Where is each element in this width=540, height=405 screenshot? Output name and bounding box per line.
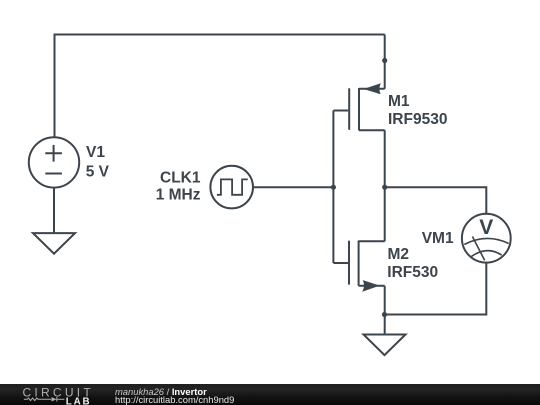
wire output to voltmeter xyxy=(385,187,487,214)
svg-text:VM1: VM1 xyxy=(422,230,454,247)
svg-text:CLK1: CLK1 xyxy=(160,169,201,186)
footer title text xyxy=(115,386,207,397)
svg-text:V1: V1 xyxy=(86,144,105,161)
transistor M1 xyxy=(333,83,384,130)
ground (bottom) xyxy=(364,335,406,356)
wire voltmeter bottom xyxy=(385,263,487,315)
voltmeter VM1 xyxy=(462,214,511,263)
node gate junction xyxy=(331,185,336,190)
label V1 xyxy=(86,144,110,181)
svg-text:M2: M2 xyxy=(388,246,410,263)
svg-text:IRF530: IRF530 xyxy=(387,264,438,281)
voltage source V1 xyxy=(29,137,79,187)
wire M2 source to ground xyxy=(384,286,386,335)
footer url text xyxy=(115,394,234,405)
node top-right junction xyxy=(382,58,387,63)
CircuitLab logo xyxy=(0,384,110,405)
svg-text:V: V xyxy=(479,216,493,239)
wire V1 bottom lead xyxy=(53,188,55,234)
svg-text:1 MHz: 1 MHz xyxy=(156,186,201,203)
label M2 xyxy=(387,246,438,281)
svg-text:5 V: 5 V xyxy=(86,164,110,181)
wire M1 drain to output node xyxy=(384,130,386,187)
svg-text:M1: M1 xyxy=(388,93,410,110)
wire top rail xyxy=(54,34,385,36)
node ground junction xyxy=(382,312,387,317)
clock source CLK1 xyxy=(210,166,253,209)
wire M1 source drop xyxy=(384,35,386,89)
svg-text:LAB: LAB xyxy=(66,396,92,405)
wire gate bus xyxy=(332,111,334,264)
label M1 xyxy=(388,93,447,128)
footer bar xyxy=(0,384,540,405)
ground (V1) xyxy=(33,233,75,254)
wire CLK1 to gate bus xyxy=(253,186,333,188)
node output junction xyxy=(382,185,387,190)
wire V1 top lead xyxy=(54,35,56,138)
transistor M2 xyxy=(333,241,384,292)
wire M2 drain up to output node xyxy=(384,187,386,241)
label CLK1 xyxy=(156,169,201,203)
svg-text:IRF9530: IRF9530 xyxy=(388,111,447,128)
